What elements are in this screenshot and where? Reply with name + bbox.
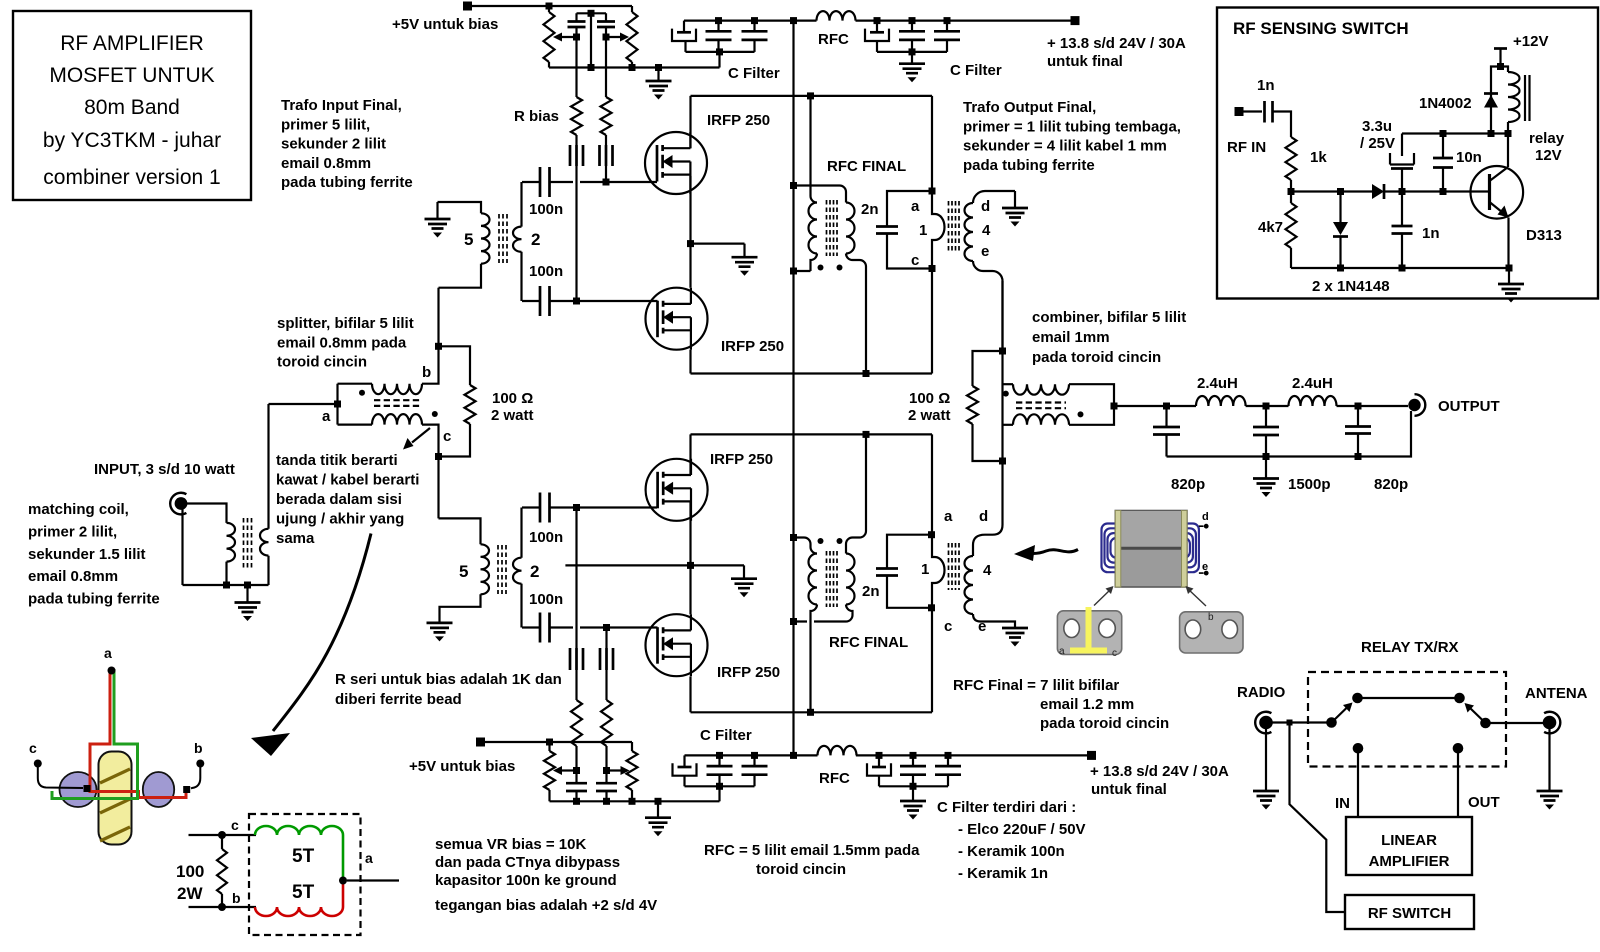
wire: radio to relay (1272, 720, 1332, 726)
phase dots combiner (1003, 391, 1118, 418)
elco C filter top-right (865, 17, 889, 52)
svg-text:dan pada CTnya dibypass: dan pada CTnya dibypass (435, 854, 620, 871)
svg-text:4: 4 (983, 562, 992, 579)
svg-text:relay: relay (1529, 130, 1565, 147)
svg-text:pada tubing ferrite: pada tubing ferrite (28, 591, 160, 608)
resistor 1k (1286, 137, 1328, 192)
svg-text:toroid cincin: toroid cincin (277, 354, 367, 371)
svg-text:2: 2 (531, 230, 540, 249)
svg-text:email 1mm: email 1mm (1032, 329, 1110, 346)
wire: LPF bottom rail (1167, 411, 1412, 460)
svg-text:untuk final: untuk final (1091, 781, 1167, 798)
svg-text:email 0.8mm pada: email 0.8mm pada (277, 334, 407, 351)
svg-text:2.4uH: 2.4uH (1197, 375, 1238, 392)
svg-text:1k: 1k (1310, 149, 1327, 166)
svg-text:3.3u: 3.3u (1362, 118, 1392, 135)
note: Trafo Output Final (963, 99, 1181, 174)
terminal RF IN (1227, 107, 1266, 156)
diode 1N4148 series (1372, 184, 1490, 199)
transistor Q3 IRFP 250 (550, 451, 774, 521)
svg-text:toroid cincin: toroid cincin (756, 861, 846, 878)
svg-text:IRFP 250: IRFP 250 (710, 451, 773, 468)
wire: R bias right to Q1 gate (603, 166, 610, 186)
wire: R bias left to Q2 gate (573, 166, 580, 305)
capacitor 10n (1433, 134, 1482, 192)
svg-text:e: e (981, 243, 989, 260)
ground (Q1/Q2 source) (732, 257, 758, 276)
svg-text:c: c (231, 817, 239, 833)
svg-text:2 watt: 2 watt (491, 407, 534, 424)
resistor 4k7 (1258, 192, 1297, 269)
svg-text:e: e (978, 618, 986, 635)
note: C Filter terdiri (937, 799, 1086, 882)
ferrite bead right (600, 145, 613, 166)
svg-text:1: 1 (921, 561, 929, 578)
svg-text:R bias: R bias (514, 108, 559, 125)
transformer matching coil secondary (260, 404, 269, 585)
+12V terminal (1494, 33, 1548, 70)
ground (antena) (1537, 729, 1563, 810)
wire: Q3/Q4 common source (565, 502, 744, 614)
svg-text:email 1.2 mm: email 1.2 mm (1040, 696, 1134, 713)
box: RF SENSING SWITCH (1217, 8, 1598, 299)
svg-text:IRFP 250: IRFP 250 (721, 338, 784, 355)
svg-text:2n: 2n (861, 201, 879, 218)
svg-text:RFC FINAL: RFC FINAL (829, 634, 908, 651)
svg-text:10n: 10n (1456, 149, 1482, 166)
elco C filter top-left (672, 21, 696, 52)
transformer T1 secondary (2) (513, 182, 540, 301)
inductor 2.4uH (1) (1196, 375, 1246, 406)
VR bias 3 (bottom-left potentiometer) (544, 742, 577, 801)
svg-text:RADIO: RADIO (1237, 684, 1286, 701)
phase dots splitter (322, 364, 451, 445)
wire: input to matching coil (183, 504, 227, 586)
box: RF SWITCH (1345, 895, 1474, 929)
ground (C filter bottom-right) (900, 801, 926, 820)
capacitor 820p (2) (1345, 406, 1408, 493)
svg-text:2n: 2n (862, 583, 880, 600)
svg-text:D313: D313 (1526, 227, 1562, 244)
wire: RF switch bottom rail (1291, 265, 1513, 296)
svg-text:RF SWITCH: RF SWITCH (1368, 905, 1451, 922)
svg-text:OUT: OUT (1468, 794, 1500, 811)
capacitor C filter top-left b (742, 17, 768, 52)
svg-text:c: c (443, 428, 451, 445)
svg-text:pada tubing ferrite: pada tubing ferrite (963, 157, 1095, 174)
svg-text:5T: 5T (292, 846, 315, 867)
wire: bias bottom rail (lower) (550, 798, 720, 805)
svg-text:a: a (1059, 646, 1065, 657)
inductor RFC (top) (817, 11, 856, 48)
transformer RFC FINAL (upper) right winding (794, 186, 867, 374)
relay contact right (1453, 693, 1491, 754)
svg-text:a: a (911, 198, 920, 215)
transformer T2 primary (5) (440, 544, 490, 623)
capacitor 100n (Q3 gate) (522, 493, 563, 547)
svg-text:RFC = 5 lilit email 1.5mm pada: RFC = 5 lilit email 1.5mm pada (704, 842, 920, 859)
svg-text:d: d (979, 508, 988, 525)
capacitor 820p (1) (1153, 406, 1205, 493)
svg-text:matching coil,: matching coil, (28, 501, 129, 518)
wire: Q1/Q2 common source (687, 176, 745, 288)
svg-text:RF IN: RF IN (1227, 139, 1266, 156)
svg-text:combiner, bifilar 5 lilit: combiner, bifilar 5 lilit (1032, 309, 1186, 326)
wire: bias bottom rail (top) (549, 64, 720, 71)
svg-text:INPUT, 3 s/d 10 watt: INPUT, 3 s/d 10 watt (94, 461, 235, 478)
svg-text:Trafo Output Final,: Trafo Output Final, (963, 99, 1096, 116)
svg-text:820p: 820p (1374, 476, 1408, 493)
relay coil 12V (1501, 67, 1565, 165)
svg-text:+ 13.8 s/d 24V / 30A: + 13.8 s/d 24V / 30A (1090, 763, 1229, 780)
svg-text:diberi ferrite bead: diberi ferrite bead (335, 691, 462, 708)
svg-text:primer = 1 lilit tubing tembag: primer = 1 lilit tubing tembaga, (963, 118, 1181, 135)
svg-text:1N4002: 1N4002 (1419, 95, 1472, 112)
transformer T1 primary (5) (438, 202, 490, 288)
svg-text:b: b (422, 364, 431, 381)
svg-text:d: d (981, 198, 990, 215)
transistor Q2 IRFP 250 (550, 288, 785, 355)
VR bias 2 (top-right potentiometer) (606, 6, 638, 68)
capacitor C filter bottom-left b (742, 752, 768, 786)
note: tanda titik text (276, 452, 419, 547)
svg-text:1n: 1n (1422, 225, 1440, 242)
svg-text:C Filter: C Filter (950, 62, 1002, 79)
svg-text:5: 5 (459, 562, 468, 581)
svg-text:- Keramik 1n: - Keramik 1n (958, 865, 1048, 882)
ground (Q3/Q4 source) (731, 579, 757, 598)
+5V bias terminal (bottom) (409, 738, 632, 776)
svg-text:primer 5 lilit,: primer 5 lilit, (281, 116, 370, 133)
wire: Q3 drain (y=434.4) (691, 431, 933, 475)
capacitor C filter top-right a (899, 17, 925, 52)
transistor Q1 IRFP 250 (550, 112, 771, 194)
wire: relay top (1358, 697, 1460, 699)
wire: relay IN lead (1335, 753, 1358, 817)
terminal +13.8V (bottom) (1087, 751, 1229, 798)
arrow: dot pointer (403, 428, 430, 450)
svg-text:RFC FINAL: RFC FINAL (827, 158, 906, 175)
resistor 100 ohm 2 watt (combiner) (908, 351, 1003, 461)
note: splitter text (277, 315, 414, 371)
node: +V spine top (790, 17, 797, 24)
svg-text:kawat / kabel berarti: kawat / kabel berarti (276, 472, 419, 489)
capacitor elco 3.3u/25V (1360, 118, 1414, 192)
svg-text:C Filter terdiri dari :: C Filter terdiri dari : (937, 799, 1076, 816)
svg-text:100n: 100n (529, 591, 563, 608)
ground (T2 primary) (427, 623, 453, 642)
illustration: core half right (1180, 612, 1243, 653)
illustration: toroid winding (29, 645, 204, 845)
ground (output transformer lower) (1002, 628, 1028, 647)
phase dots RFC FINAL (lower) (818, 538, 909, 651)
svg-text:100 Ω: 100 Ω (492, 390, 533, 407)
wire: C filter top-right bottom bar (877, 48, 947, 63)
svg-text:sekunder = 4 lilit kabel 1 mm: sekunder = 4 lilit kabel 1 mm (963, 138, 1167, 155)
core T2 (498, 545, 506, 594)
wire: relay node (1402, 130, 1512, 137)
phase dots RFC FINAL (upper) (818, 158, 907, 271)
node: top bias rail junction (546, 3, 553, 10)
core matching coil (244, 518, 252, 568)
svg-text:5: 5 (464, 230, 473, 249)
svg-text:RFC Final = 7 lilit bifilar: RFC Final = 7 lilit bifilar (953, 677, 1119, 694)
svg-text:pada toroid cincin: pada toroid cincin (1032, 349, 1161, 366)
svg-text:primer 2 lilit,: primer 2 lilit, (28, 523, 117, 540)
svg-text:1: 1 (919, 222, 927, 239)
note: R seri text (335, 671, 562, 708)
wire: R bias lower-right from Q4 gate (605, 628, 607, 649)
svg-text:RF SENSING SWITCH: RF SENSING SWITCH (1233, 19, 1409, 38)
wire: +13.8V bottom rail (685, 752, 1088, 759)
svg-text:Trafo Input Final,: Trafo Input Final, (281, 97, 402, 114)
core RFC FINAL (lower) (827, 551, 838, 607)
note: semua VR text (435, 836, 657, 914)
capacitor (bias bypass 2) (597, 13, 615, 37)
capacitor C filter bottom-right a (900, 752, 926, 786)
capacitor (bias bypass 4) (596, 767, 617, 801)
inductor 2.4uH (2) (1289, 375, 1337, 406)
svg-text:RF AMPLIFIER: RF AMPLIFIER (60, 32, 204, 55)
capacitor 1500p (1253, 406, 1331, 493)
capacitor (bias bypass 1) (568, 13, 586, 37)
svg-text:2: 2 (530, 562, 539, 581)
transistor D313 (1471, 134, 1562, 269)
svg-text:tanda titik berarti: tanda titik berarti (276, 452, 398, 469)
ferrite bead lower-right (600, 648, 613, 670)
ground (output transformer upper) (1002, 208, 1028, 227)
ANTENA connector (1525, 685, 1588, 733)
ground (LPF) (1253, 457, 1279, 498)
svg-text:by YC3TKM - juhar: by YC3TKM - juhar (43, 129, 221, 152)
illustration: 5T bifilar diagram (176, 814, 399, 935)
transformer output final (lower) secondary (965, 461, 1016, 628)
INPUT connector (94, 461, 235, 514)
svg-text:1n: 1n (1257, 77, 1275, 94)
ground (top bias rail) (646, 68, 672, 100)
wire: LPF main line (1114, 403, 1408, 410)
wire: combiner input vertical (999, 281, 1006, 465)
svg-text:a: a (322, 408, 331, 425)
transistor Q4 IRFP 250 (550, 614, 781, 681)
capacitor C filter top-left a (706, 17, 732, 52)
RADIO connector (1237, 684, 1286, 733)
svg-text:b: b (194, 740, 203, 756)
ferrite bead lower-left (570, 648, 583, 670)
svg-text:2 watt: 2 watt (908, 407, 951, 424)
svg-text:C Filter: C Filter (728, 65, 780, 82)
svg-text:+5V untuk bias: +5V untuk bias (409, 758, 515, 775)
svg-text:c: c (911, 252, 919, 269)
transformer matching coil primary (227, 523, 236, 585)
transformer output final (upper) secondary (965, 191, 1016, 351)
capacitor 100n (Q4 gate) (522, 591, 563, 643)
svg-text:2.4uH: 2.4uH (1292, 375, 1333, 392)
svg-text:OUTPUT: OUTPUT (1438, 398, 1500, 415)
box: relay dashed (1308, 639, 1506, 767)
core output transformer (upper) (949, 201, 960, 252)
svg-text:820p: 820p (1171, 476, 1205, 493)
capacitor 2n (upper) (861, 191, 932, 269)
elco C filter bottom-right (867, 752, 891, 786)
capacitor 1n (filter) (1392, 192, 1440, 269)
svg-text:a: a (365, 850, 373, 866)
core combiner (1016, 403, 1066, 409)
resistor R bias lower-right (601, 670, 612, 771)
svg-text:a: a (944, 508, 953, 525)
transformer combiner top winding (1003, 384, 1115, 406)
svg-text:splitter, bifilar 5 lilit: splitter, bifilar 5 lilit (277, 315, 414, 332)
svg-text:kapasitor 100n ke ground: kapasitor 100n ke ground (435, 872, 617, 889)
svg-text:RFC: RFC (818, 31, 849, 48)
svg-text:IRFP 250: IRFP 250 (717, 664, 780, 681)
svg-text:IN: IN (1335, 795, 1350, 812)
svg-text:4k7: 4k7 (1258, 219, 1283, 236)
svg-text:MOSFET UNTUK: MOSFET UNTUK (49, 64, 214, 87)
ground (T1 primary) (425, 219, 451, 238)
svg-text:b: b (1208, 612, 1214, 623)
svg-text:c: c (1112, 648, 1117, 659)
title box (13, 11, 251, 200)
svg-text:pada toroid cincin: pada toroid cincin (1040, 715, 1169, 732)
core output transformer (lower) (949, 543, 960, 590)
note: RFC spec (704, 842, 920, 878)
wire: input bottom rail (183, 582, 269, 603)
wire: C filter top-left bottom bar (686, 48, 780, 82)
capacitor C filter top-right b (934, 17, 960, 52)
capacitor 1n (RF IN) (1257, 77, 1291, 137)
core RFC FINAL (upper) (827, 200, 838, 256)
svg-text:ujung / akhir yang: ujung / akhir yang (276, 511, 404, 528)
ferrite bead left (570, 145, 583, 166)
transformer RFC FINAL (lower) left winding (794, 538, 818, 713)
svg-text:semua VR bias = 10K: semua VR bias = 10K (435, 836, 586, 853)
svg-text:AMPLIFIER: AMPLIFIER (1369, 853, 1450, 870)
note: RFC Final spec (953, 677, 1169, 732)
svg-text:100 Ω: 100 Ω (909, 390, 950, 407)
svg-text:+5V untuk bias: +5V untuk bias (392, 16, 498, 33)
note: Trafo Input Final (281, 97, 413, 191)
inductor RFC (bottom) (818, 746, 857, 787)
wire: radio to RF switch (1290, 723, 1346, 913)
wire: R bias lower-left from Q3 gate (575, 508, 577, 649)
OUTPUT connector (1408, 394, 1499, 416)
svg-text:1500p: 1500p (1288, 476, 1331, 493)
svg-text:email 0.8mm: email 0.8mm (28, 568, 118, 585)
capacitor C filter bottom-right b (935, 752, 961, 786)
wire: Q1 drain to rail (691, 92, 933, 148)
svg-text:12V: 12V (1535, 147, 1562, 164)
svg-text:sekunder 2 lilit: sekunder 2 lilit (281, 136, 386, 153)
transformer output final (lower) primary (928, 434, 945, 712)
capacitor 100n (Q2 gate) (522, 263, 563, 316)
capacitor C filter bottom-left a (707, 752, 733, 786)
svg-text:- Keramik 100n: - Keramik 100n (958, 843, 1065, 860)
svg-text:d: d (1202, 511, 1209, 523)
resistor R bias left (514, 37, 582, 145)
transformer T2 secondary (2) (513, 508, 539, 628)
ground (input) (235, 603, 261, 622)
svg-text:/ 25V: / 25V (1360, 135, 1395, 152)
wire: Q2 drain (y=373.5) (691, 350, 933, 377)
wire: +V spine vertical (790, 21, 797, 756)
note: matching coil (28, 501, 160, 608)
box: LINEAR AMPLIFIER (1346, 817, 1472, 875)
svg-text:C Filter: C Filter (700, 727, 752, 744)
capacitor 100n (Q1 gate) (522, 167, 563, 218)
diode 1N4002 (1419, 67, 1501, 134)
svg-text:100: 100 (176, 862, 204, 881)
wire: splitter c to T2 (439, 518, 481, 544)
arrow: big curved pointer (251, 534, 371, 757)
svg-text:100n: 100n (529, 201, 563, 218)
wire: +13.8V top rail (684, 20, 1071, 22)
capacitor (bias bypass 3) (566, 767, 587, 801)
ground (bottom bias rail) (645, 801, 671, 836)
svg-text:pada tubing ferrite: pada tubing ferrite (281, 174, 413, 191)
transformer splitter top winding (338, 346, 439, 394)
wire: C filter bottom-left bar (685, 727, 755, 801)
svg-text:- Elco 220uF / 50V: - Elco 220uF / 50V (958, 821, 1086, 838)
svg-text:sama: sama (276, 530, 315, 547)
resistor 100 ohm (splitter) (439, 346, 534, 456)
+5V bias terminal (top) (392, 2, 632, 34)
core T1 (499, 214, 507, 263)
VR bias 4 (bottom-right potentiometer) (607, 742, 638, 801)
core splitter (374, 400, 420, 406)
ground (C filter top-right) (899, 62, 1002, 82)
note: combiner text (1032, 309, 1186, 366)
elco C filter bottom-left (673, 755, 697, 786)
svg-text:LINEAR: LINEAR (1381, 832, 1437, 849)
svg-text:RELAY TX/RX: RELAY TX/RX (1361, 639, 1459, 656)
transformer combiner bottom winding (1003, 406, 1115, 425)
svg-text:RFC: RFC (819, 770, 850, 787)
svg-text:combiner version 1: combiner version 1 (43, 166, 220, 189)
svg-text:a: a (104, 645, 112, 661)
terminal +13.8V (top) (1047, 16, 1186, 70)
resistor R bias lower-left (571, 670, 582, 771)
illustration: transformer photo (1094, 511, 1209, 607)
ground (RF sensing) (1498, 268, 1524, 303)
svg-text:email 0.8mm: email 0.8mm (281, 155, 371, 172)
illustration: core half left (1057, 607, 1121, 659)
svg-text:e: e (1202, 561, 1208, 573)
svg-text:berada dalam sisi: berada dalam sisi (276, 491, 402, 508)
svg-text:100n: 100n (529, 263, 563, 280)
svg-text:c: c (29, 740, 37, 756)
ground (radio) (1253, 729, 1279, 810)
node: wiper junctions (573, 34, 610, 41)
VR bias 1 (top-left potentiometer) (544, 6, 577, 68)
svg-text:b: b (232, 890, 241, 906)
svg-text:2W: 2W (177, 884, 203, 903)
wire: C filter bottom-right bar (879, 783, 948, 801)
svg-text:ANTENA: ANTENA (1525, 685, 1588, 702)
capacitor 2n (lower) (862, 535, 932, 608)
svg-text:100n: 100n (529, 529, 563, 546)
wire: input to splitter (269, 384, 342, 425)
svg-text:2 x 1N4148: 2 x 1N4148 (1312, 278, 1390, 295)
transformer RFC FINAL (upper) left winding (794, 96, 818, 271)
svg-text:5T: 5T (292, 882, 315, 903)
transformer RFC FINAL (lower) right winding (794, 434, 867, 621)
svg-text:80m Band: 80m Band (84, 96, 180, 119)
svg-text:+12V: +12V (1513, 33, 1548, 50)
wire: Q4 drain (y=712.3) (691, 677, 933, 716)
node: detector node (1288, 188, 1373, 195)
svg-text:IRFP 250: IRFP 250 (707, 112, 770, 129)
